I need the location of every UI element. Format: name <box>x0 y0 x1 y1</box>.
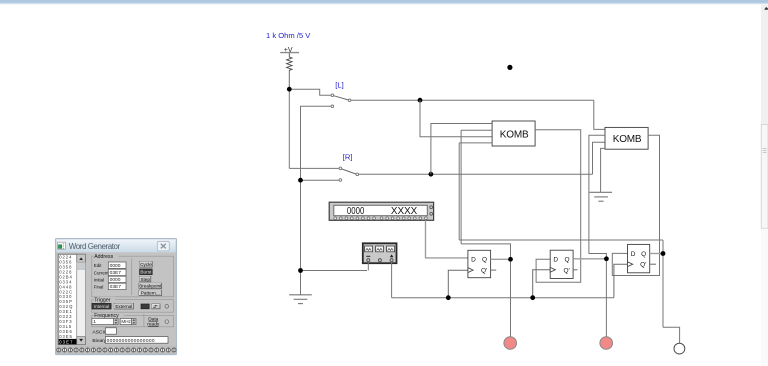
svg-text:Q′: Q′ <box>640 262 647 269</box>
svg-text:XXXX: XXXX <box>391 206 418 217</box>
svg-text:Pattern...: Pattern... <box>141 291 160 296</box>
svg-text:0000000000000000: 0000000000000000 <box>107 338 155 344</box>
svg-text:D: D <box>631 251 636 258</box>
svg-text:03E7: 03E7 <box>110 284 122 290</box>
svg-text:+V: +V <box>284 47 293 54</box>
svg-text:03E7: 03E7 <box>110 270 122 276</box>
svg-text:Q: Q <box>482 256 487 263</box>
svg-text:KOMB: KOMB <box>500 129 529 140</box>
svg-text:Burst: Burst <box>140 270 152 275</box>
svg-text:D: D <box>471 256 476 263</box>
svg-text:0000: 0000 <box>110 263 121 269</box>
svg-text:0 3 E 7: 0 3 E 7 <box>59 339 73 344</box>
svg-text:0000: 0000 <box>110 277 121 283</box>
svg-text:0 3 E 5: 0 3 E 5 <box>59 334 72 339</box>
svg-text:ASCII: ASCII <box>92 330 105 336</box>
svg-text:Internal: Internal <box>94 304 109 309</box>
svg-text:D: D <box>553 257 558 264</box>
svg-text:Q: Q <box>641 251 646 258</box>
svg-text:Breakpoint: Breakpoint <box>139 284 162 289</box>
svg-text:Q: Q <box>565 257 570 264</box>
svg-text:Step: Step <box>140 277 150 282</box>
svg-text:Q′: Q′ <box>564 267 571 274</box>
svg-text:MHz: MHz <box>121 319 131 324</box>
svg-text:KOMB: KOMB <box>613 134 642 145</box>
svg-text:Data: Data <box>148 316 158 322</box>
svg-text:ready: ready <box>147 322 160 328</box>
svg-text:Word Generator: Word Generator <box>69 242 121 251</box>
svg-text:Final: Final <box>94 284 104 289</box>
svg-text:1 k Ohm /5 V: 1 k Ohm /5 V <box>266 31 311 40</box>
svg-text:0000: 0000 <box>347 206 365 217</box>
svg-text:Cycle: Cycle <box>140 262 152 267</box>
svg-text:External: External <box>115 304 132 309</box>
svg-text:Trigger: Trigger <box>94 297 111 303</box>
svg-text:Q′: Q′ <box>481 268 488 275</box>
svg-text:[R]: [R] <box>343 153 353 162</box>
svg-text:[L]: [L] <box>335 80 343 89</box>
svg-text:Edit: Edit <box>94 263 102 268</box>
svg-text:Binary: Binary <box>92 338 106 344</box>
svg-text:Initial: Initial <box>94 277 104 282</box>
svg-text:Current: Current <box>94 270 109 275</box>
svg-text:Address: Address <box>94 254 113 260</box>
svg-text:1: 1 <box>93 319 96 325</box>
